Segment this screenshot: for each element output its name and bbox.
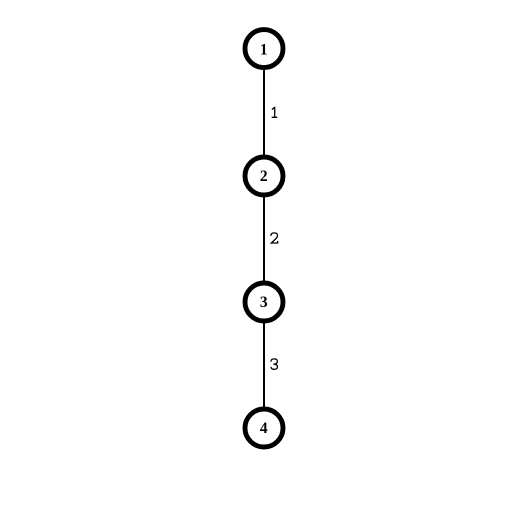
svg-text:2: 2 [260, 168, 268, 185]
node 4 [245, 409, 283, 447]
wire edge 3-4 [263, 302, 265, 428]
node 3 [245, 283, 283, 321]
wire edge 2-3 [263, 176, 265, 302]
svg-text:3: 3 [260, 294, 268, 311]
edge label 2 [271, 233, 278, 243]
wire edge 1-2 [263, 49, 265, 176]
node 1 [245, 30, 283, 68]
edge label 3 [271, 359, 278, 369]
edge label 1 [272, 107, 278, 117]
svg-text:4: 4 [260, 420, 268, 437]
svg-text:1: 1 [260, 41, 268, 58]
node 2 [245, 157, 283, 195]
